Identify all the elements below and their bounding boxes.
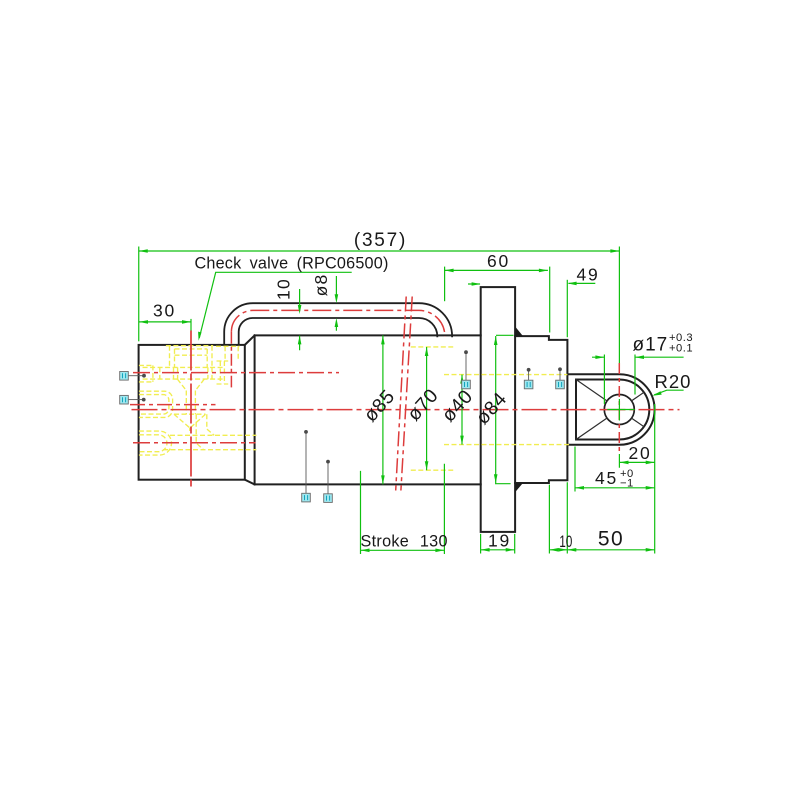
dimension 49 line segments bbox=[468, 282, 595, 285]
dimension Ø85 arrows bbox=[381, 335, 385, 484]
GROUP: red centerlines bbox=[130, 297, 680, 491]
dimension 357 line bbox=[139, 250, 620, 252]
R20 leader arrow bbox=[652, 391, 661, 395]
rod eye vertical centerline bbox=[618, 363, 620, 454]
gland housing bbox=[515, 336, 567, 483]
svg-text:ø40: ø40 bbox=[438, 385, 478, 426]
svg-text:R20: R20 bbox=[655, 371, 692, 392]
dimension Ø70 arrows bbox=[425, 347, 429, 470]
pipe centerline bbox=[231, 310, 445, 336]
rod eye bore circle Ø17 bbox=[604, 395, 634, 425]
svg-text:10: 10 bbox=[559, 533, 572, 551]
balloon leader 6 bbox=[528, 370, 530, 380]
svg-text:45: 45 bbox=[595, 468, 618, 488]
dimension 30 line bbox=[139, 321, 191, 323]
balloon square 1 bbox=[120, 372, 129, 381]
dimension Ø17 line segments bbox=[592, 356, 684, 358]
svg-text:ø8: ø8 bbox=[311, 274, 331, 297]
dimension 20 line bbox=[620, 461, 655, 463]
dimension 45 arrows bbox=[575, 486, 655, 490]
port C inner pocket bbox=[139, 435, 167, 452]
svg-text:30: 30 bbox=[153, 301, 176, 321]
cylinder body (tube) bbox=[255, 335, 481, 484]
dimension 10b arrows bbox=[549, 548, 567, 552]
dimension 60 line bbox=[445, 269, 548, 271]
dimension 357 arrows bbox=[139, 249, 620, 253]
GROUP: dimension texts bbox=[153, 230, 693, 552]
weld bead triangle bottom bbox=[515, 483, 523, 492]
svg-text:(357): (357) bbox=[354, 230, 407, 251]
balloon square 4 bbox=[324, 494, 333, 503]
dimension 19 line bbox=[481, 549, 515, 551]
check valve plug inner walls bbox=[175, 349, 208, 368]
dimension 60 ext right bbox=[549, 267, 551, 333]
bore Ø70 hidden bottom bbox=[411, 469, 453, 471]
dimension Ø70 ext bbox=[426, 347, 428, 470]
balloon square 7 bbox=[556, 380, 565, 389]
check valve leader arrow bbox=[198, 332, 201, 341]
dimension Ø40 ext bbox=[461, 375, 463, 445]
svg-text:50: 50 bbox=[598, 528, 624, 551]
balloon leader 1 bbox=[128, 375, 144, 377]
svg-text:10: 10 bbox=[273, 278, 293, 300]
rod eye inner contour bbox=[576, 380, 649, 440]
eye center mark bbox=[607, 409, 634, 411]
R20 leader bbox=[654, 390, 684, 395]
dimension 10b ext lines bbox=[549, 482, 567, 553]
balloon leader 2 bbox=[128, 399, 143, 401]
dimension 45 line bbox=[575, 487, 655, 489]
main centerline bbox=[132, 409, 680, 411]
dimension 357 ext left bbox=[138, 247, 140, 342]
svg-text:20: 20 bbox=[628, 443, 651, 463]
check valve horizontal bore walls bbox=[143, 367, 223, 379]
dimension Ø17 ext lines bbox=[604, 355, 635, 405]
dimension Ø84 ext bbox=[495, 336, 497, 483]
rod eye cross diagonal A bbox=[576, 380, 644, 427]
cap block (check valve housing) bbox=[139, 345, 245, 480]
dimension 50 line bbox=[567, 549, 654, 551]
flange plate bbox=[481, 287, 515, 532]
GROUP: yellow hidden detail bbox=[139, 346, 570, 471]
balloon leader 4 bbox=[327, 462, 329, 494]
check valve plug top flange bbox=[166, 346, 213, 368]
svg-text:Stroke 130: Stroke 130 bbox=[361, 533, 448, 551]
dimension 10b line bbox=[549, 549, 567, 551]
GROUP: outlines bbox=[139, 287, 655, 532]
dimension Ø40 arrows bbox=[460, 375, 464, 445]
dimension Ø8 ext bbox=[335, 276, 337, 331]
GROUP: green dimensions bbox=[139, 247, 684, 555]
check valve stem bbox=[186, 391, 195, 415]
dimension 30 ext right bbox=[190, 319, 192, 331]
dimension 20 arrows bbox=[620, 461, 655, 465]
balloon square 5 bbox=[462, 380, 471, 389]
balloon square 3 bbox=[302, 493, 311, 502]
angled passage axis left bbox=[396, 297, 407, 491]
port B outer pocket bbox=[139, 391, 173, 417]
cavity drain walls bbox=[196, 414, 214, 450]
svg-text:ø70: ø70 bbox=[403, 384, 443, 425]
svg-text:ø17: ø17 bbox=[633, 335, 669, 356]
svg-text:ø85: ø85 bbox=[360, 385, 400, 426]
check valve leader bbox=[199, 272, 351, 338]
port A centerline bbox=[133, 372, 339, 374]
dimension Ø17 arrows bbox=[595, 355, 644, 359]
rod eye cross diagonal B bbox=[576, 392, 644, 439]
port C channel walls bbox=[163, 435, 256, 449]
svg-text:−1: −1 bbox=[620, 478, 634, 490]
check valve right collar bbox=[217, 361, 229, 384]
dimension Ø8 arrows bbox=[335, 294, 339, 327]
bore Ø70 hidden top bbox=[411, 346, 453, 348]
dimension 60 ext left bbox=[444, 267, 446, 302]
dimension 30 arrows bbox=[139, 320, 191, 324]
dimension stroke arrows bbox=[361, 549, 445, 553]
dimension Ø84 arrows bbox=[494, 336, 498, 483]
svg-text:60: 60 bbox=[487, 251, 510, 271]
dimension Ø85 ext bbox=[382, 335, 384, 484]
port A mouth bbox=[139, 365, 153, 382]
dimension 60 arrows bbox=[445, 269, 548, 273]
dimension 19 arrows bbox=[481, 548, 515, 552]
balloon leader 7 bbox=[559, 369, 561, 380]
check valve bore rings bbox=[160, 367, 212, 379]
pipe outer wall bbox=[224, 303, 452, 345]
GROUP: leaders and markers bbox=[120, 350, 565, 502]
dimension stroke ext lines bbox=[361, 464, 445, 554]
pipe inner wall bbox=[239, 318, 438, 345]
port B inner pocket bbox=[139, 395, 169, 415]
check valve funnel seat bbox=[174, 414, 206, 431]
balloon leader 3 bbox=[305, 432, 307, 493]
dimension 50 arrows bbox=[567, 548, 654, 552]
weld bead triangle top bbox=[515, 327, 523, 337]
dimension 49 ext right bbox=[566, 280, 568, 337]
rod Ø40 hidden bottom bbox=[444, 444, 570, 446]
balloon square 2 bbox=[120, 395, 129, 404]
dimension 19 ext lines bbox=[481, 534, 515, 554]
svg-text:19: 19 bbox=[488, 531, 511, 551]
dimension 45 ext left bbox=[574, 447, 576, 492]
weld chamfer top bbox=[245, 335, 255, 345]
pipe hole hidden walls bbox=[216, 346, 240, 361]
svg-text:49: 49 bbox=[576, 265, 599, 285]
dimension 10 pipe ext bbox=[299, 289, 301, 350]
check valve poppet cone bbox=[177, 379, 204, 390]
dimension 10 pipe arrows bbox=[298, 305, 302, 344]
rod Ø40 hidden top bbox=[444, 374, 567, 376]
port C centerline bbox=[133, 442, 256, 444]
svg-text:+0.1: +0.1 bbox=[669, 343, 693, 355]
dimension 49 arrows bbox=[472, 282, 577, 286]
port C outer pocket bbox=[139, 431, 172, 455]
pipe drop axis into block bbox=[230, 332, 232, 388]
rod eye outer contour bbox=[568, 374, 655, 445]
balloon leader 5 bbox=[465, 352, 467, 380]
dimension stroke line bbox=[361, 549, 445, 551]
check valve vertical axis bbox=[190, 331, 192, 489]
dimension 357 ext right / eye center ext bbox=[618, 247, 620, 468]
svg-text:Check valve (RPC06500): Check valve (RPC06500) bbox=[195, 255, 389, 273]
dimension 50 ext right bbox=[654, 404, 656, 554]
angled passage axis right bbox=[401, 297, 412, 491]
svg-text:ø84: ø84 bbox=[472, 388, 512, 429]
port B centerline bbox=[130, 404, 216, 406]
balloon square 6 bbox=[524, 380, 533, 389]
weld chamfer bottom bbox=[245, 480, 255, 485]
dimension Ø84 end caps bbox=[495, 335, 514, 483]
